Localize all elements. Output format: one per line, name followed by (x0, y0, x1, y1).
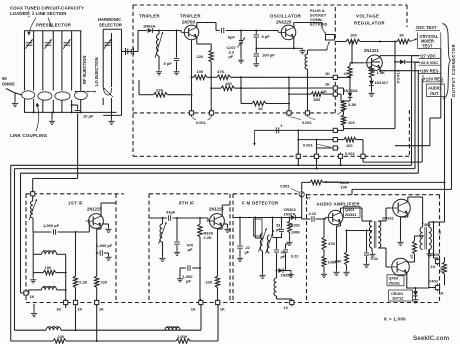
capacitor 33pF 8th IF (166, 210, 208, 221)
ground 100K discriminator (286, 240, 292, 245)
ground C207 (238, 58, 244, 63)
svg-text:K = 1,000: K = 1,000 (384, 317, 406, 322)
bottom wire B with resistors 220 and 1000 (11, 305, 218, 344)
wire 298 vertical (297, 129, 299, 154)
wire 47 below C351 (302, 196, 312, 220)
wire +13V REG down (363, 79, 423, 162)
link coupling loop 1 (22, 91, 35, 99)
wire oscillator collector to plug (294, 23, 322, 29)
feedthrough 1K 8th IF A (191, 299, 203, 312)
note K equals 1000 (384, 317, 406, 322)
svg-text:1K: 1K (99, 306, 104, 311)
wire +18V REG to bus3 (417, 71, 420, 174)
resistor 100 voltage regulator (335, 33, 397, 44)
ground oscillator emitter (256, 37, 305, 53)
dashed box audio amplifier (307, 195, 440, 303)
wire mid 148 (317, 147, 334, 149)
ground 8th IF collector side (223, 224, 231, 232)
ground upper emitter (397, 214, 407, 245)
link coupling loop 3 (55, 92, 70, 100)
variable inductor 1st IF input (29, 196, 37, 232)
svg-text:100 pF: 100 pF (262, 53, 275, 58)
label +13V REG (423, 75, 444, 82)
svg-text:C351: C351 (280, 184, 290, 189)
svg-text:1,000: 1,000 (177, 334, 188, 339)
svg-text:+: + (280, 124, 283, 129)
diode CR401 1N712 (389, 288, 419, 303)
plug and socket connector symbol (308, 29, 335, 51)
label 8TH IF (179, 201, 194, 206)
ground T402 (426, 250, 432, 257)
svg-text:10: 10 (284, 305, 288, 310)
transistor 2N1321 regulator (364, 48, 383, 71)
label 2N1225 8th IF (209, 207, 224, 212)
ground 100 resistor 1st IF (30, 273, 36, 283)
svg-text:OUT: OUT (430, 91, 439, 96)
transformer T401 (369, 221, 380, 252)
wire regulator emitter (372, 68, 381, 71)
svg-text:1K: 1K (325, 71, 330, 76)
feedthrough 1K 1st IF left (56, 299, 68, 312)
svg-text:1K: 1K (439, 291, 444, 296)
wire shield ground 1st IF (31, 304, 38, 317)
svg-text:+18V REG: +18V REG (419, 68, 439, 73)
input 50 ohm lead and ground (6, 89, 22, 107)
svg-text:1N712: 1N712 (392, 295, 404, 300)
svg-text:1K: 1K (220, 306, 225, 311)
wire feedthrough drops 1st IF (66, 305, 97, 341)
svg-text:100: 100 (197, 69, 204, 74)
svg-text:VOLTAGE: VOLTAGE (356, 14, 379, 19)
wire oscillator base bias verticals (240, 77, 289, 103)
wire preselector tap (71, 104, 78, 106)
capacitor 10 pF (75, 105, 94, 179)
variable inductor discriminator B (266, 230, 274, 254)
svg-text:50: 50 (2, 76, 7, 81)
svg-text:220: 220 (101, 280, 108, 285)
svg-text:0.001: 0.001 (345, 151, 356, 156)
resistor 800 oscillator (289, 92, 333, 102)
svg-text:1K: 1K (30, 294, 35, 299)
feedthrough 1K rail B (325, 81, 339, 90)
wire shield feedthroughs to buses (297, 158, 341, 169)
wiper arrow divider (338, 109, 346, 115)
variable capacitor preselector C3 (63, 39, 70, 49)
wire +27 VDC to bus1 (412, 56, 420, 166)
diode 1N83A (143, 24, 181, 33)
dashed shield box tripler-oscillator top and left (133, 5, 407, 156)
IF transformer secondary coil 1st IF (29, 286, 67, 292)
resistor R328 2.2K (198, 218, 214, 268)
svg-text:TRIPLER: TRIPLER (180, 14, 201, 19)
feedthrough shield A (296, 153, 300, 161)
wire T401 to Q403 base (378, 248, 389, 267)
ground audio emitter (333, 270, 339, 275)
svg-text:λ LINE SECTION: λ LINE SECTION (32, 11, 66, 16)
capacitor .22 uF FM input (237, 218, 251, 262)
wire 316 vertical (316, 139, 318, 155)
capacitor 1000 pF emitter bypass (96, 243, 113, 261)
variable capacitor preselector C2 (44, 39, 51, 49)
label CR303 1N87A (284, 207, 297, 217)
wire 8th IF collector (222, 205, 230, 216)
wire tripler vertical to feedthrough (191, 77, 193, 110)
capacitor 33 pF lower (274, 243, 286, 262)
svg-text:AUDIO AMPLIFIER: AUDIO AMPLIFIER (317, 202, 361, 207)
wire audio out line B (352, 99, 452, 195)
svg-text:0.22: 0.22 (371, 256, 379, 261)
feedthrough 0.001 tripler A (189, 109, 193, 117)
bus wire +18V (21, 173, 419, 293)
inductor oscillator coil (305, 50, 309, 111)
label PRESELECTOR (36, 23, 72, 28)
label PS415 vertical (396, 69, 401, 83)
resistor 180 audio (335, 231, 350, 276)
feedthrough shield D (361, 153, 365, 161)
svg-text:100: 100 (45, 265, 52, 270)
wire +18V from emitter (379, 70, 419, 72)
dashed box 1ST IF (26, 194, 124, 303)
label AUDIO OUT boxed (427, 84, 445, 97)
feedthrough mid C (303, 143, 339, 151)
svg-text:+22.5 VDC: +22.5 VDC (419, 60, 439, 65)
svg-text:pF: pF (186, 279, 191, 284)
svg-text:0.22: 0.22 (291, 254, 299, 259)
capacitor 6 pF coupling (222, 28, 240, 40)
transformer T402 (420, 222, 431, 250)
label PLUG AND SOCKET CONNECTIONS (310, 8, 328, 27)
label 2N1225 first IF (87, 207, 102, 212)
resistor 47K tripler (207, 69, 333, 80)
dashed shield box lower edge (133, 110, 409, 156)
IF transformer primary coil 1st IF (33, 232, 65, 300)
svg-text:1K: 1K (322, 89, 327, 94)
svg-text:0.001: 0.001 (302, 120, 313, 125)
osc test connection arrow (410, 39, 417, 42)
svg-text:pF: pF (229, 54, 234, 59)
dashed partition oscillator to voltage regulator (334, 7, 336, 113)
svg-text:1,000 pF: 1,000 pF (43, 223, 60, 228)
label HARMONIC SELECTOR (98, 17, 122, 28)
svg-text:1K: 1K (258, 106, 263, 111)
svg-text:2N700: 2N700 (182, 20, 195, 25)
feedthrough C351 (280, 184, 304, 199)
svg-text:C403: C403 (429, 278, 439, 283)
wire audio out line A (434, 97, 446, 223)
label CRYSTAL MIXER TEST boxed (418, 33, 441, 49)
feedthrough 1K 8th IF B (216, 299, 225, 312)
svg-text:800: 800 (314, 97, 321, 102)
wire 1K feedthrough C (337, 94, 344, 102)
label OUTPUT CONNECTOR vertical (451, 44, 456, 97)
wire FM detector input (233, 217, 290, 219)
feedthrough C403 (429, 278, 444, 295)
svg-text:1K: 1K (325, 81, 330, 86)
wire preselector to 1st IF feedthrough (33, 179, 78, 192)
feedthrough C406 (431, 252, 441, 269)
svg-text:47K: 47K (328, 241, 335, 246)
svg-text:10: 10 (438, 230, 442, 234)
svg-text:F M DETECTOR: F M DETECTOR (242, 201, 279, 206)
wire 1K feedthrough A (337, 76, 350, 78)
capacitor 100 pF oscillator (253, 47, 275, 67)
wire base 1st IF (88, 221, 90, 232)
wire 220 bottom to feedthrough (210, 76, 212, 110)
transistor Q403 lower (387, 258, 409, 286)
svg-text:SELECTOR: SELECTOR (99, 23, 122, 28)
svg-text:0.22: 0.22 (309, 211, 317, 216)
variable capacitor oscillator trimmer (0, 0, 1, 1)
svg-text:100: 100 (350, 33, 357, 38)
label 1ST IF (68, 201, 83, 206)
label OSC TEST (416, 25, 441, 30)
resistor 1K osc test (397, 33, 410, 44)
resistor 47K audio (322, 218, 335, 256)
wire tripler input (138, 31, 147, 52)
svg-text:C406: C406 (431, 252, 441, 257)
ground tripler 5pF (173, 70, 179, 75)
resistor 100 lower tripler (210, 81, 333, 91)
svg-text:100: 100 (348, 120, 355, 125)
bottom wire A with choke 1st IF (15, 305, 202, 332)
feedthrough 1K 1st IF mid (73, 299, 82, 312)
transistor Q401 2N331 (325, 207, 360, 225)
svg-text:TEST: TEST (422, 43, 433, 48)
svg-text:6pF: 6pF (228, 35, 236, 40)
svg-text:OSCILLATOR: OSCILLATOR (270, 14, 302, 19)
svg-text:pF: pF (188, 247, 193, 252)
variable capacitor preselector C1 (25, 39, 32, 49)
ground bus preselector (24, 111, 117, 113)
wire regulator base divider (351, 42, 364, 64)
wire mid 139 resistor 100 (298, 137, 363, 154)
label LO INJECTION vertical (94, 57, 99, 86)
wire regulated mid rail with down arrow (253, 130, 333, 145)
ground T401 primary (369, 252, 375, 257)
feedthrough 0.001 oscillator B (291, 109, 316, 125)
electrolytic capacitor regulator output (276, 124, 283, 134)
diode +22.5 VDC (394, 60, 419, 65)
transistor Q402 upper (390, 199, 411, 217)
svg-text:1ST IF: 1ST IF (68, 201, 83, 206)
feedthrough shield C (338, 151, 355, 160)
label VOLTAGE REGULATOR (354, 14, 385, 26)
transistor 2N700 tripler (181, 25, 199, 40)
feedthrough 10 FM det (284, 299, 294, 310)
feedthrough mid B (332, 138, 340, 142)
feedthrough 1K side 1st IF (22, 291, 34, 299)
svg-text:33pF: 33pF (166, 210, 176, 215)
label +27 VDC (419, 53, 441, 58)
ground 1st IF collector side (102, 224, 112, 232)
tertiary connection discriminator (273, 238, 283, 244)
ground 8th IF inductor (159, 256, 165, 261)
svg-text:LOADED: LOADED (10, 11, 29, 16)
label AUDIO AMPLIFIER (317, 202, 361, 207)
wire 47 to T402 tap (415, 235, 424, 237)
svg-text:4: 4 (28, 15, 30, 19)
svg-text:1K: 1K (191, 306, 196, 311)
svg-text:10 pF: 10 pF (83, 114, 94, 119)
svg-text:µF: µF (245, 250, 250, 255)
wire mid rail feedthrough to regulator (337, 129, 343, 131)
svg-text:1K: 1K (399, 33, 404, 38)
feedthrough 0.001 mid A (332, 128, 340, 132)
svg-text:OUTPUT CONNECTOR: OUTPUT CONNECTOR (451, 44, 456, 97)
wire T401 to Q402 base (378, 208, 390, 221)
label TRIPLER 2N700 (180, 14, 201, 25)
svg-text:+27 VDC: +27 VDC (419, 53, 436, 58)
wire 8th IF input (149, 218, 208, 221)
wire crystal mixer test down (395, 49, 441, 146)
svg-text:100: 100 (341, 184, 348, 189)
wire audio emitter chain (337, 222, 341, 270)
wire Q403 collector to T402 (406, 250, 429, 290)
resistor output level (440, 257, 447, 285)
svg-text:47K: 47K (217, 69, 224, 74)
capacitor 5 pF tripler (164, 31, 180, 70)
wire C403 junction (429, 287, 436, 289)
capacitor 0.22 audio coupling (302, 211, 326, 222)
wire regulator collector to +27 (380, 56, 419, 58)
label 50 OHMS (2, 76, 15, 87)
wire tripler emitter down (191, 37, 212, 78)
svg-text:1K: 1K (77, 306, 82, 311)
resistor 2.2K 1st IF (73, 231, 87, 300)
wire collector 1st IF (101, 203, 116, 216)
svg-text:2N331: 2N331 (389, 280, 401, 285)
wire 1.5K top join emitter (372, 56, 381, 62)
trimmer capacitor C207 3.3 pF (227, 30, 246, 60)
svg-text:180: 180 (335, 259, 342, 264)
wire Q402 collector to T402 (408, 197, 423, 222)
svg-text:1K: 1K (56, 306, 61, 311)
wire tripler collector to 6pF (197, 23, 220, 31)
resistor 100 tripler supply (192, 69, 208, 80)
resistor 220 8th IF (206, 276, 220, 300)
svg-text:REGULATOR: REGULATOR (354, 21, 385, 26)
capacitor 1000 pF 1st IF coupling (33, 223, 89, 235)
capacitor 0.22 FM det (283, 244, 299, 262)
svg-text:1N1317: 1N1317 (375, 80, 389, 85)
coil FM det volume (274, 271, 292, 301)
svg-text:1K: 1K (431, 264, 436, 269)
wire R328 to feedthrough (199, 268, 201, 300)
resistor 100 regulator divider (341, 115, 355, 129)
label OSCILLATOR 2N1225 (270, 14, 302, 25)
ground harmonic selector (108, 115, 114, 124)
feedthrough shield B (314, 153, 318, 161)
label LINK COUPLING with arrow (10, 103, 48, 139)
svg-text:3.3K: 3.3K (348, 102, 357, 107)
svg-text:SeekIC.com: SeekIC.com (413, 335, 450, 342)
output connector bracket (443, 24, 451, 99)
ground preselector bus (49, 112, 55, 124)
svg-text:2N1225: 2N1225 (87, 207, 102, 212)
preselector coax line sections (24, 31, 82, 91)
resistor 3.3K regulator divider (341, 101, 356, 115)
feedthrough 0.001 oscillator A (287, 109, 291, 117)
bus wire +22.5 (15, 169, 416, 331)
choke coil 8th IF bottom (165, 327, 180, 330)
label RF INJECTION vertical (82, 56, 87, 84)
resistor 22K tripler base return (139, 80, 193, 97)
svg-text:220: 220 (197, 54, 204, 59)
svg-text:OHMS: OHMS (2, 82, 15, 87)
svg-text:PRESELECTOR: PRESELECTOR (36, 23, 72, 28)
feedthrough 1K 1st IF right (95, 299, 104, 312)
wire T402 secondary (429, 221, 442, 258)
dashed shield partition below oscillator (133, 112, 335, 114)
wire emitter 1st IF down (96, 226, 101, 276)
zener diode 1N1317 (368, 78, 388, 96)
resistor 100 1st IF (33, 265, 66, 275)
svg-text:COAX TUNED CIRCUIT-CAPACITY: COAX TUNED CIRCUIT-CAPACITY (10, 6, 84, 11)
svg-text:RF INJECTION: RF INJECTION (82, 56, 87, 84)
diode 1N87A lower (276, 262, 293, 277)
link coupling loop 2 (38, 92, 52, 100)
resistor 47 regulator (344, 63, 353, 93)
svg-text:1N87A: 1N87A (284, 212, 296, 217)
svg-text:47: 47 (410, 254, 414, 258)
harmonic selector coax lines (103, 29, 121, 115)
svg-text:220: 220 (58, 334, 65, 339)
svg-text:LINK COUPLING: LINK COUPLING (10, 133, 48, 138)
diode CR303 (291, 215, 302, 220)
svg-text:2N331: 2N331 (345, 212, 357, 217)
svg-text:2N1321: 2N1321 (364, 48, 379, 53)
feedthrough 1K rail C (322, 89, 339, 96)
wire +22.5 VDC to bus2 (415, 62, 419, 168)
transistor 2N1225 8th IF (207, 214, 225, 229)
resistor 100K audio (321, 256, 337, 277)
capacitor 33 pF discriminator upper (276, 218, 284, 238)
resistor 1K oscillator (241, 101, 290, 111)
variable inductor 8th IF (159, 217, 167, 256)
label +18V REG (419, 68, 442, 73)
dashed box 8TH IF (149, 194, 230, 303)
svg-text:1N83A: 1N83A (143, 24, 156, 29)
capacitor 5 pF oscillator (254, 31, 271, 49)
capacitor 1000 pF 8th IF (177, 265, 201, 283)
capacitor 470 pF (174, 218, 194, 255)
svg-text:+13V REG: +13V REG (424, 77, 444, 82)
resistor 220 1st IF (95, 276, 108, 300)
svg-text:2N1225: 2N1225 (276, 20, 292, 25)
feedthrough 1K rail A (325, 71, 339, 80)
svg-text:0.001: 0.001 (196, 120, 207, 125)
variable capacitor harmonic selector (104, 39, 111, 49)
capacitor 0.22 audio bypass (363, 244, 379, 267)
svg-text:100K: 100K (291, 230, 300, 235)
resistor 100K discriminator (288, 217, 301, 241)
svg-text:2.2K: 2.2K (79, 280, 88, 285)
svg-text:8TH IF: 8TH IF (179, 201, 194, 206)
dashed bottom edge IF strip (26, 302, 440, 304)
svg-text:0.001: 0.001 (303, 143, 314, 148)
resistor R406 100 (302, 180, 445, 190)
variable inductor discriminator A (259, 228, 267, 252)
label +22.5 VDC (419, 60, 442, 65)
svg-text:OSC TEST: OSC TEST (416, 25, 437, 30)
variable inductor tripler tank (155, 31, 163, 70)
watermark SeekIC.com (413, 335, 450, 342)
bus wire +27 (11, 165, 412, 341)
injection coupling arrows (75, 91, 97, 93)
wire oscillator vertical A (288, 88, 290, 111)
svg-text:1N753A: 1N753A (344, 88, 358, 93)
transistor 2N1225 oscillator (278, 25, 296, 40)
